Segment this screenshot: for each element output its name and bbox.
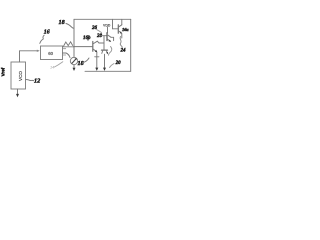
wire Q3 base bbox=[113, 28, 119, 30]
wire right rail bbox=[130, 19, 132, 71]
svg-text:Vref: Vref bbox=[1, 67, 6, 76]
Q2 upper diagonal bbox=[107, 35, 111, 38]
svg-text:14: 14 bbox=[50, 66, 54, 70]
svg-text:24: 24 bbox=[120, 49, 127, 54]
wire Q2 right stub bbox=[111, 37, 114, 40]
wire Q1 emitter down to ground rail with arrowhead bbox=[96, 52, 98, 68]
leader from label 16 to block 60 bbox=[40, 35, 44, 43]
wire node down to Q4 bbox=[103, 36, 105, 50]
terminal ticks inside block 60 bbox=[63, 49, 65, 55]
svg-text:VDD: VDD bbox=[103, 23, 111, 27]
leader from label 26 bbox=[97, 30, 102, 33]
svg-text:60: 60 bbox=[48, 51, 53, 56]
Q4 left leg bbox=[102, 50, 103, 53]
arrowhead into block 60 bbox=[37, 50, 40, 52]
junction dot at left rail bbox=[73, 46, 74, 47]
block 60 (center box) bbox=[41, 46, 63, 60]
svg-text:20: 20 bbox=[115, 61, 122, 66]
transistor Q1 base bar bbox=[92, 42, 94, 52]
Q3 emitter diagonal down with arrow bbox=[118, 31, 121, 33]
current source I1 (circle with arrow) bbox=[70, 57, 77, 64]
svg-text:18: 18 bbox=[78, 60, 84, 67]
wire Q1 collector to node bbox=[97, 41, 99, 43]
transistor Q2 bar (vertical) bbox=[106, 33, 108, 41]
leader from label 18b to emitter wire bbox=[83, 58, 90, 63]
wire block 60 upper output to left rail bbox=[63, 46, 75, 48]
wire Q3 collector to top rail bbox=[121, 19, 123, 25]
leader from lower stub to current source bbox=[66, 53, 70, 58]
Q1 collector diagonal bbox=[93, 41, 98, 44]
leader from label 20 to bottom rail bbox=[110, 64, 115, 68]
leader squiggle right of Q4 bbox=[109, 47, 112, 56]
Q3 collector diagonal up bbox=[118, 25, 122, 27]
leader from label 12 to block 50 bbox=[26, 79, 34, 80]
svg-text:16a: 16a bbox=[122, 27, 129, 32]
svg-text:16b: 16b bbox=[83, 36, 91, 41]
wire VDD to transistor Q2 bbox=[107, 27, 109, 33]
block 50 (left tall box) bbox=[11, 62, 26, 89]
wire from block 50 top to block 60 input bbox=[20, 51, 39, 62]
svg-text:26: 26 bbox=[91, 26, 98, 31]
wire Q2 base leader bbox=[100, 35, 107, 37]
wire below block 50 with arrowhead bbox=[17, 89, 19, 95]
leader from Q3 to label 24 bbox=[120, 37, 122, 48]
svg-text:18: 18 bbox=[59, 19, 65, 26]
wire Q1 base to left rail bbox=[74, 46, 93, 48]
wire left rail bbox=[73, 19, 75, 57]
wire block 60 lower stub bbox=[63, 52, 67, 54]
transistor Q3 base bar bbox=[117, 25, 119, 33]
transistor Q4 base bar (horizontal) bbox=[102, 49, 108, 51]
wire Q3 emitter down bbox=[121, 34, 123, 38]
wire top rail to Q3 base bbox=[112, 19, 114, 29]
tick on Q1 emitter wire bbox=[95, 56, 99, 58]
wire node from Q1 collector bbox=[99, 42, 104, 44]
svg-text:28: 28 bbox=[96, 34, 103, 39]
wire Q4 down to ground rail with arrowhead bbox=[104, 54, 106, 68]
arrowhead onto Q1 base wire bbox=[87, 39, 89, 41]
leader from label 14 toward current source bbox=[55, 62, 63, 67]
Q2 lower diagonal with arrow bbox=[107, 39, 110, 41]
Q1 emitter diagonal with arrow bbox=[93, 49, 97, 52]
svg-text:VCO: VCO bbox=[18, 71, 23, 81]
wire below current source with arrowhead bbox=[73, 65, 75, 69]
wire bottom ground rail bbox=[85, 70, 131, 72]
wire top VDD rail bbox=[74, 18, 131, 20]
Q4 right leg with arrow bbox=[106, 50, 107, 53]
zigzag leader above upper output wire bbox=[64, 42, 73, 46]
svg-text:12: 12 bbox=[34, 78, 40, 85]
svg-text:16: 16 bbox=[44, 30, 50, 36]
leader from label 18 to left rail bbox=[66, 24, 74, 29]
